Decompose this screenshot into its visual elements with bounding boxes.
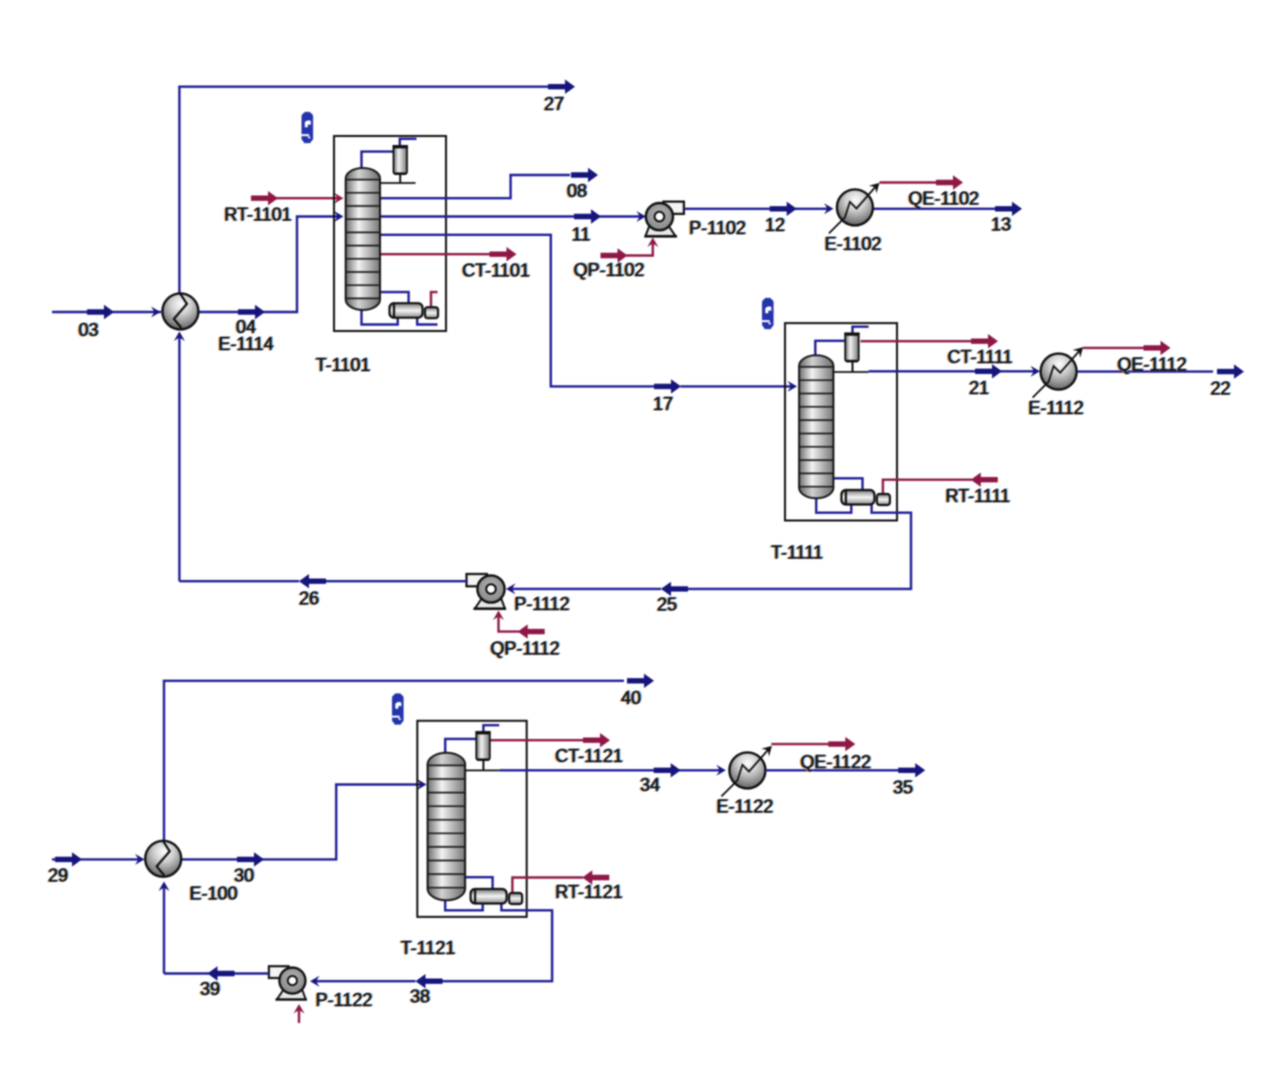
svg-text:E-1122: E-1122 bbox=[717, 797, 774, 817]
svg-text:E-1114: E-1114 bbox=[218, 334, 273, 354]
svg-text:E-1112: E-1112 bbox=[1028, 398, 1083, 418]
svg-text:21: 21 bbox=[969, 378, 989, 398]
svg-text:T-1101: T-1101 bbox=[316, 355, 371, 375]
svg-text:03: 03 bbox=[78, 320, 98, 340]
svg-text:17: 17 bbox=[653, 394, 673, 414]
svg-text:E-100: E-100 bbox=[189, 884, 237, 904]
svg-text:QE-1122: QE-1122 bbox=[800, 752, 871, 772]
svg-text:11: 11 bbox=[572, 225, 591, 245]
svg-text:QP-1102: QP-1102 bbox=[574, 260, 645, 280]
svg-text:E-1102: E-1102 bbox=[825, 234, 882, 254]
svg-text:35: 35 bbox=[893, 778, 913, 798]
svg-text:CT-1101: CT-1101 bbox=[462, 261, 530, 281]
svg-text:RT-1121: RT-1121 bbox=[555, 882, 622, 902]
svg-text:29: 29 bbox=[48, 866, 68, 886]
svg-text:QP-1112: QP-1112 bbox=[490, 639, 559, 659]
svg-text:T-1121: T-1121 bbox=[401, 938, 456, 958]
svg-text:QE-1102: QE-1102 bbox=[908, 189, 979, 209]
svg-text:P-1112: P-1112 bbox=[514, 594, 569, 614]
svg-text:RT-1101: RT-1101 bbox=[224, 205, 291, 225]
svg-text:12: 12 bbox=[765, 215, 785, 235]
svg-text:T-1111: T-1111 bbox=[771, 543, 823, 563]
svg-text:P-1102: P-1102 bbox=[689, 218, 746, 238]
svg-text:P-1122: P-1122 bbox=[316, 990, 373, 1010]
svg-text:CT-1121: CT-1121 bbox=[555, 746, 623, 766]
svg-text:39: 39 bbox=[200, 979, 220, 999]
svg-text:08: 08 bbox=[567, 181, 587, 201]
svg-text:22: 22 bbox=[1210, 378, 1230, 398]
svg-text:34: 34 bbox=[640, 775, 660, 795]
svg-text:QE-1112: QE-1112 bbox=[1117, 355, 1186, 375]
svg-text:38: 38 bbox=[410, 987, 430, 1007]
svg-text:CT-1111: CT-1111 bbox=[947, 347, 1012, 367]
svg-text:13: 13 bbox=[991, 215, 1011, 235]
svg-text:40: 40 bbox=[621, 688, 641, 708]
svg-text:27: 27 bbox=[544, 94, 564, 114]
svg-text:RT-1111: RT-1111 bbox=[945, 486, 1010, 506]
svg-text:25: 25 bbox=[657, 595, 677, 615]
svg-text:26: 26 bbox=[299, 589, 319, 609]
